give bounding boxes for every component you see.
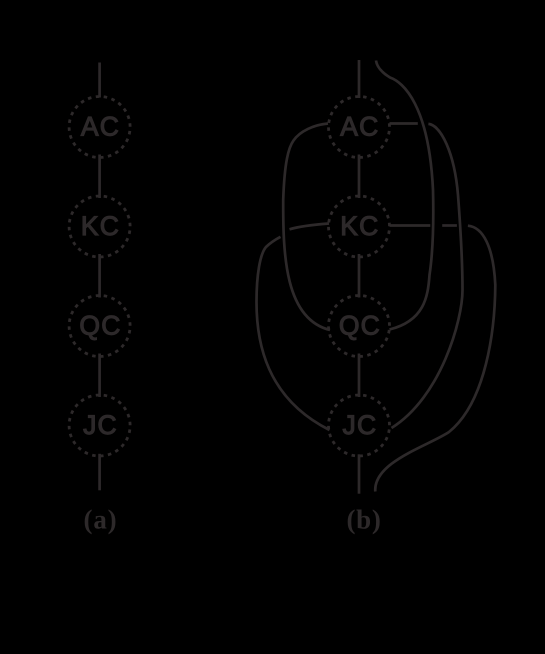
svg-text:JC: JC — [83, 410, 118, 440]
svg-text:AC: AC — [340, 112, 379, 142]
svg-text:KC: KC — [340, 211, 379, 241]
svg-text:KC: KC — [81, 211, 120, 241]
svg-text:QC: QC — [79, 310, 121, 340]
svg-text:(a): (a) — [84, 505, 118, 535]
svg-text:QC: QC — [339, 310, 381, 340]
svg-text:JC: JC — [343, 410, 378, 440]
svg-text:(b): (b) — [346, 505, 381, 535]
svg-text:AC: AC — [81, 112, 120, 142]
